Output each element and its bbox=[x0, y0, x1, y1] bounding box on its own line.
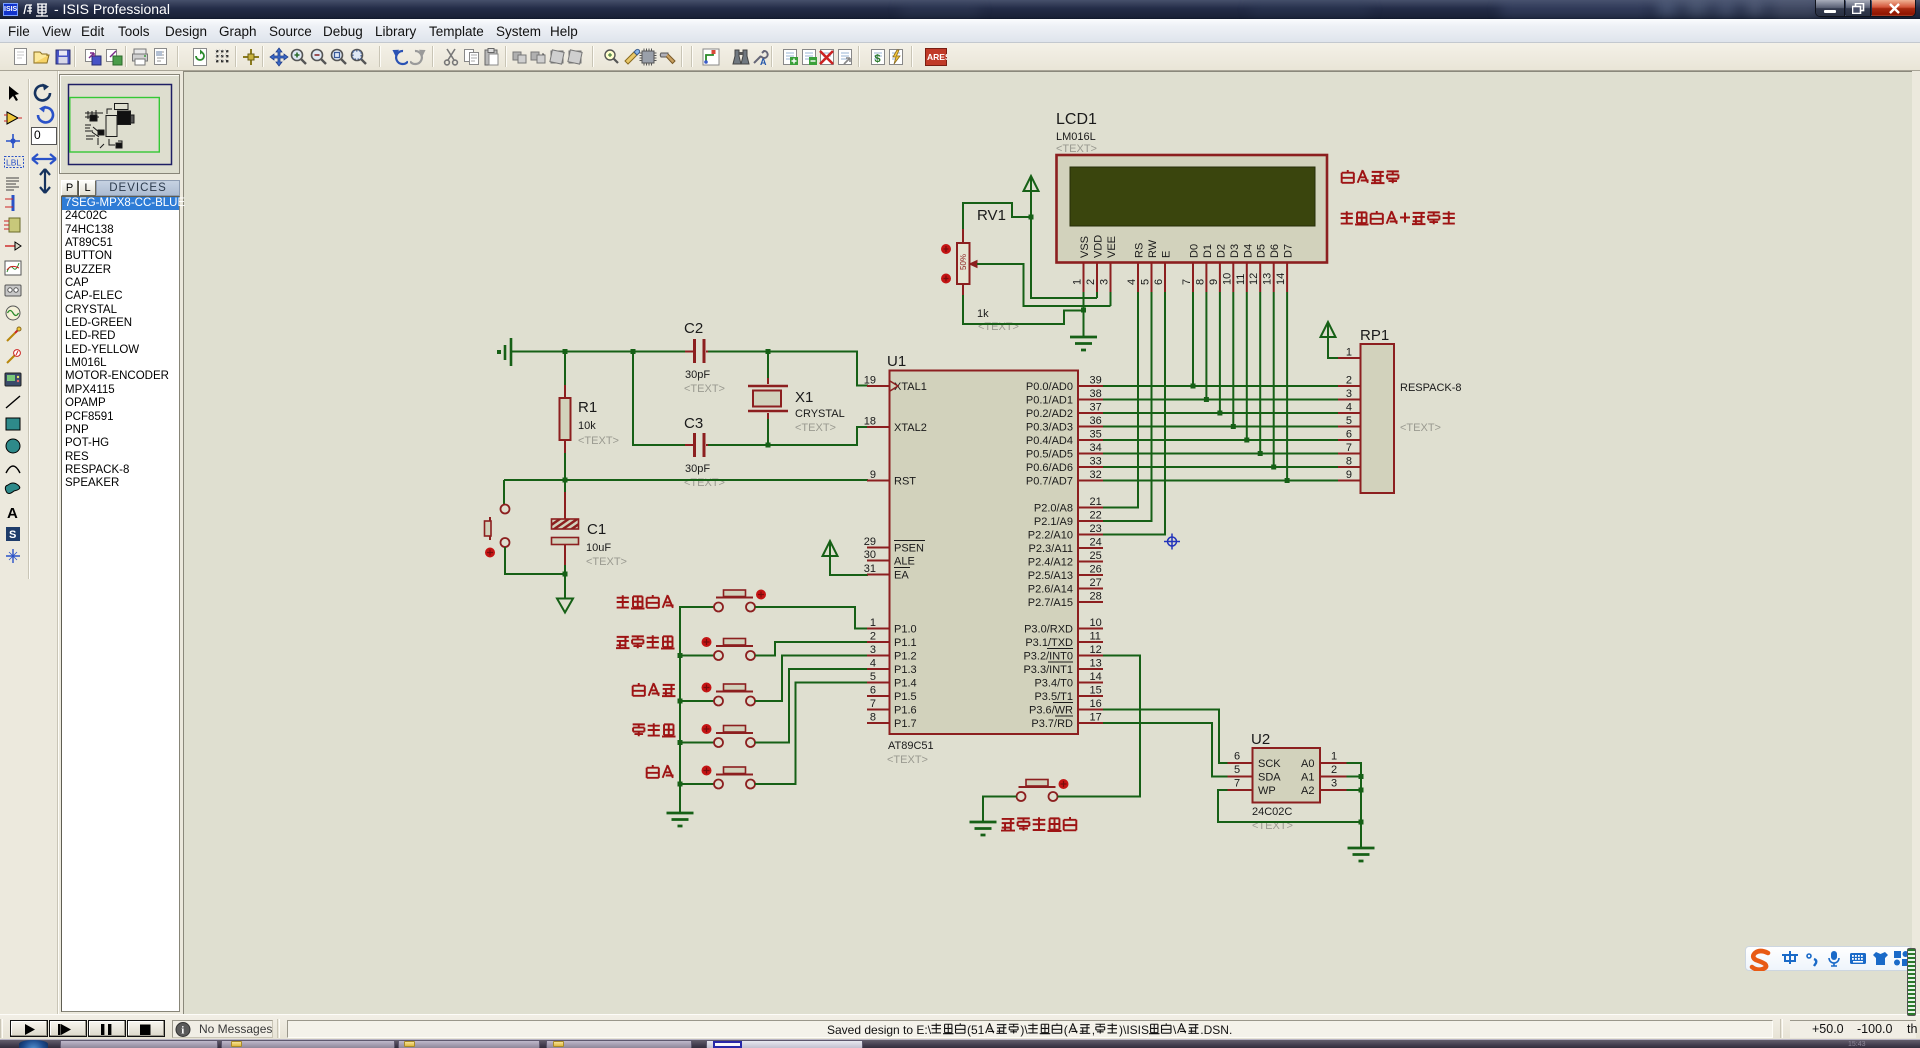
wire LCD RW to P2.1 bbox=[1103, 292, 1152, 521]
wire C3 to XTAL2 bbox=[708, 427, 868, 445]
text placeholder U2 bbox=[1252, 820, 1293, 832]
text placeholder U1 bbox=[887, 754, 928, 766]
ground (button trunk) bbox=[667, 813, 694, 826]
capacitor C1 (electrolytic) bbox=[552, 480, 579, 565]
svg-text:21: 21 bbox=[1090, 496, 1102, 508]
U2 pin names bbox=[1258, 758, 1315, 797]
svg-text:P1.4: P1.4 bbox=[894, 678, 917, 690]
svg-text:SCK: SCK bbox=[1258, 758, 1281, 770]
svg-text:3: 3 bbox=[1346, 388, 1352, 400]
capacitor C3 bbox=[685, 433, 714, 457]
svg-text:10uF: 10uF bbox=[586, 542, 611, 554]
wire LCD D6 vertical bbox=[1273, 292, 1275, 467]
wire P0.5 to RP1 pin7 bbox=[1103, 453, 1338, 455]
svg-text:8: 8 bbox=[1194, 279, 1206, 285]
U1 XTAL1 clock marker bbox=[890, 381, 898, 391]
svg-text:P0.7/AD7: P0.7/AD7 bbox=[1026, 476, 1073, 488]
svg-text:LCD1: LCD1 bbox=[1056, 111, 1097, 128]
svg-text:3: 3 bbox=[1331, 778, 1337, 790]
wire LCD D2 vertical bbox=[1219, 292, 1221, 413]
wire P0.6 to RP1 pin8 bbox=[1103, 466, 1338, 468]
svg-text:P2.2/A10: P2.2/A10 bbox=[1028, 530, 1073, 542]
svg-text:9: 9 bbox=[1346, 469, 1352, 481]
wire XTAL1 top net bbox=[510, 351, 692, 353]
node C3 branch junction bbox=[631, 349, 636, 354]
svg-text:\: \ bbox=[1173, 1023, 1177, 1037]
svg-text:RW: RW bbox=[1147, 239, 1159, 258]
svg-text:,: , bbox=[1092, 1023, 1095, 1037]
svg-text:30: 30 bbox=[864, 549, 876, 561]
value LM016L bbox=[1056, 131, 1096, 143]
svg-text:2: 2 bbox=[1331, 764, 1337, 776]
wire button row 4 to trunk bbox=[680, 742, 714, 744]
label LCD1 bbox=[1056, 111, 1097, 128]
svg-text:D3: D3 bbox=[1229, 244, 1241, 258]
node trunk junction 3 bbox=[678, 699, 683, 704]
svg-text:RS: RS bbox=[1134, 243, 1146, 258]
svg-text:RESPACK-8: RESPACK-8 bbox=[1400, 382, 1462, 394]
wire LCD D1 vertical bbox=[1205, 292, 1207, 400]
node A2 junction bbox=[1359, 788, 1364, 793]
svg-text:VSS: VSS bbox=[1079, 236, 1091, 258]
wire RV1 bottom to VSS net bbox=[963, 295, 1084, 324]
wire C1 to ground terminal bbox=[564, 574, 566, 598]
wire P0.3 to RP1 pin5 bbox=[1103, 426, 1338, 428]
node WP net junction bbox=[1359, 820, 1364, 825]
svg-text:1k: 1k bbox=[977, 308, 989, 320]
svg-text:7: 7 bbox=[1234, 778, 1240, 790]
text placeholder C2 bbox=[684, 383, 725, 395]
svg-text:10: 10 bbox=[1221, 273, 1233, 285]
node D1 junction bbox=[1204, 397, 1209, 402]
U1 right pin stubs and pin numbers bbox=[1078, 375, 1103, 724]
svg-text:14: 14 bbox=[1275, 273, 1287, 285]
svg-text:R1: R1 bbox=[578, 399, 597, 416]
svg-text:10: 10 bbox=[1090, 617, 1102, 629]
svg-text:9: 9 bbox=[870, 469, 876, 481]
U1 PSEN/EA overlines bbox=[894, 541, 925, 568]
wire reset button to C1 bottom bbox=[505, 547, 565, 574]
svg-text:<TEXT>: <TEXT> bbox=[978, 321, 1019, 333]
wire P0.1 to RP1 pin3 bbox=[1103, 399, 1338, 401]
svg-text:P2.7/A15: P2.7/A15 bbox=[1028, 597, 1073, 609]
wire P3.7 to U2 SDA bbox=[1103, 723, 1228, 777]
svg-text:D1: D1 bbox=[1202, 244, 1214, 258]
svg-text:15: 15 bbox=[1090, 685, 1102, 697]
svg-text:)\: )\ bbox=[1020, 1023, 1028, 1037]
svg-text:EA: EA bbox=[894, 570, 909, 582]
svg-text:5: 5 bbox=[870, 671, 876, 683]
value CRYSTAL bbox=[795, 408, 845, 420]
node VSS junction bbox=[1081, 308, 1086, 313]
svg-text:1: 1 bbox=[1346, 347, 1352, 359]
text placeholder LCD1 bbox=[1056, 143, 1097, 155]
svg-text:8: 8 bbox=[1346, 456, 1352, 468]
svg-text:2: 2 bbox=[1346, 375, 1352, 387]
svg-text:P2.4/A12: P2.4/A12 bbox=[1028, 557, 1073, 569]
LCD1 pin names bbox=[1079, 235, 1295, 258]
wire button common ground trunk bbox=[680, 607, 714, 813]
wire SW3 to P1.2 bbox=[755, 656, 867, 702]
wire LCD D0 vertical bbox=[1192, 292, 1194, 386]
potentiometer RV1 bbox=[941, 229, 977, 295]
svg-text:35: 35 bbox=[1090, 429, 1102, 441]
wire button row 5 to trunk bbox=[680, 783, 714, 785]
svg-text:37: 37 bbox=[1090, 402, 1102, 414]
svg-text:E: E bbox=[1161, 251, 1173, 258]
svg-text:P2.0/A8: P2.0/A8 bbox=[1034, 503, 1073, 515]
svg-text:11: 11 bbox=[1090, 631, 1101, 643]
node trunk junction 4 bbox=[678, 740, 683, 745]
value 30pF (C2) bbox=[685, 369, 710, 381]
node X1 top junction bbox=[766, 349, 771, 378]
node R1 top junction bbox=[563, 349, 568, 385]
text placeholder X1 bbox=[795, 422, 836, 434]
svg-text:<TEXT>: <TEXT> bbox=[586, 556, 627, 568]
svg-text:32: 32 bbox=[1090, 469, 1102, 481]
label RP1 bbox=[1360, 327, 1389, 344]
svg-text:P0.4/AD4: P0.4/AD4 bbox=[1026, 435, 1073, 447]
label C3 bbox=[684, 415, 703, 432]
value 10k bbox=[578, 420, 596, 432]
svg-text:XTAL1: XTAL1 bbox=[894, 381, 927, 393]
svg-text:P1.1: P1.1 bbox=[894, 637, 917, 649]
svg-text:RST: RST bbox=[894, 476, 916, 488]
origin marker bbox=[1164, 534, 1180, 550]
svg-text:P0.2/AD2: P0.2/AD2 bbox=[1026, 408, 1073, 420]
svg-text:D2: D2 bbox=[1215, 244, 1227, 258]
svg-text:P0.5/AD5: P0.5/AD5 bbox=[1026, 449, 1073, 461]
svg-text:i: i bbox=[181, 1025, 184, 1037]
ground (U2) bbox=[1348, 848, 1375, 861]
red label 存储清零 (store clear) bbox=[617, 595, 674, 609]
wire SW4 to P1.3 bbox=[755, 669, 867, 743]
svg-text:51: 51 bbox=[971, 1023, 985, 1037]
svg-text:$: $ bbox=[875, 53, 881, 65]
svg-text:16: 16 bbox=[1090, 698, 1102, 710]
svg-text:<TEXT>: <TEXT> bbox=[795, 422, 836, 434]
push button SW5 (store) bbox=[702, 766, 756, 789]
node D7 junction bbox=[1285, 478, 1290, 483]
svg-text:WP: WP bbox=[1258, 785, 1276, 797]
svg-text:D4: D4 bbox=[1242, 244, 1254, 258]
U1 left pin stubs and pin numbers bbox=[864, 375, 890, 724]
wire VCC to RP1 pin1 bbox=[1328, 341, 1338, 358]
red label 存储序号+存储值 (stored index + stored value) bbox=[1341, 211, 1455, 225]
svg-text:24: 24 bbox=[1090, 537, 1102, 549]
svg-text:CRYSTAL: CRYSTAL bbox=[795, 408, 845, 420]
svg-text:<TEXT>: <TEXT> bbox=[684, 383, 725, 395]
svg-text:22: 22 bbox=[1090, 510, 1102, 522]
node D5 junction bbox=[1258, 451, 1263, 456]
LCD display LCD1 LM016L body bbox=[1057, 155, 1328, 263]
svg-text:D6: D6 bbox=[1269, 244, 1281, 258]
node VCC/RV1 junction bbox=[1029, 215, 1034, 220]
wire U2 WP to ground net bbox=[1218, 790, 1361, 822]
svg-text:11: 11 bbox=[1235, 274, 1247, 285]
svg-text:SDA: SDA bbox=[1258, 772, 1281, 784]
wire SW5 to P1.4 bbox=[755, 683, 867, 785]
power VCC (RP1 pin1) bbox=[1321, 322, 1336, 341]
svg-text:7: 7 bbox=[1346, 442, 1352, 454]
push button SW2 (step clear) bbox=[702, 637, 756, 660]
ground terminal (arrow) bbox=[557, 599, 573, 613]
ground (vibration sensor) bbox=[970, 822, 997, 835]
U1 left pin names bbox=[894, 381, 927, 730]
svg-text:P3.3/INT1: P3.3/INT1 bbox=[1023, 664, 1073, 676]
svg-text:<TEXT>: <TEXT> bbox=[684, 477, 725, 489]
svg-text:P2.5/A13: P2.5/A13 bbox=[1028, 570, 1073, 582]
power VCC (LCD VDD net) bbox=[1024, 176, 1039, 195]
svg-text:RP1: RP1 bbox=[1360, 327, 1389, 344]
svg-text:C3: C3 bbox=[684, 415, 703, 432]
op: microcontroller U1 AT89C51 body bbox=[890, 371, 1079, 735]
node D3 junction bbox=[1231, 424, 1236, 429]
svg-text:P2.1/A9: P2.1/A9 bbox=[1034, 516, 1073, 528]
svg-text:P0.1/AD1: P0.1/AD1 bbox=[1026, 395, 1073, 407]
svg-text:3: 3 bbox=[870, 644, 876, 656]
svg-text:6: 6 bbox=[870, 685, 876, 697]
svg-text:A: A bbox=[7, 505, 18, 522]
wire RV1 top to VCC net bbox=[963, 203, 1031, 229]
svg-text:P3.0/RXD: P3.0/RXD bbox=[1024, 624, 1073, 636]
text placeholder C3 bbox=[684, 477, 725, 489]
svg-text:LBL: LBL bbox=[6, 158, 21, 168]
ground (LCD VSS) bbox=[1070, 337, 1097, 350]
svg-text:C1: C1 bbox=[587, 521, 606, 538]
svg-text:U1: U1 bbox=[887, 353, 906, 370]
wire SW1 to P1.0 bbox=[755, 607, 867, 629]
svg-text:50%: 50% bbox=[959, 254, 968, 270]
svg-text:)\ISIS: )\ISIS bbox=[1119, 1023, 1149, 1037]
svg-text:5: 5 bbox=[1346, 415, 1352, 427]
svg-text:VDD: VDD bbox=[1093, 235, 1105, 258]
label U2 bbox=[1251, 731, 1270, 748]
RP1 pin stubs and numbers bbox=[1338, 347, 1361, 482]
svg-text:26: 26 bbox=[1090, 564, 1102, 576]
label X1 bbox=[795, 389, 813, 406]
svg-text:- ISIS Professional: - ISIS Professional bbox=[54, 2, 170, 17]
svg-text:D0: D0 bbox=[1189, 244, 1201, 258]
U1 INT0/INT1/WR/RD overlines bbox=[1047, 649, 1073, 717]
svg-text:13: 13 bbox=[1090, 658, 1102, 670]
U2 pin stubs and numbers bbox=[1228, 751, 1347, 791]
svg-text:27: 27 bbox=[1090, 577, 1102, 589]
svg-text:<TEXT>: <TEXT> bbox=[578, 435, 619, 447]
wire P0.7 to RP1 pin9 bbox=[1103, 480, 1338, 482]
label U1 bbox=[887, 353, 906, 370]
push button SW4 (next) bbox=[702, 724, 756, 747]
wire RV1 wiper to VEE bbox=[977, 264, 1111, 306]
wire SW2 to P1.1 bbox=[755, 642, 867, 656]
node R1 bottom / RST junction bbox=[563, 478, 568, 483]
crystal X1 bbox=[748, 378, 788, 419]
resistor pack RP1 RESPACK-8 body bbox=[1361, 344, 1395, 493]
svg-text:36: 36 bbox=[1090, 415, 1102, 427]
LCD1 pin stubs bbox=[1084, 263, 1288, 293]
svg-text:(: ( bbox=[1064, 1023, 1068, 1037]
label R1 bbox=[578, 399, 597, 416]
svg-text:RV1: RV1 bbox=[977, 207, 1006, 224]
node A1 junction bbox=[1359, 774, 1364, 779]
svg-text:1: 1 bbox=[1072, 279, 1084, 285]
node D0 junction bbox=[1191, 384, 1196, 389]
red label 步数清零 (step clear) bbox=[616, 635, 675, 648]
wire button row 3 to trunk bbox=[680, 700, 714, 702]
svg-text:13: 13 bbox=[1262, 273, 1274, 285]
svg-text:ALE: ALE bbox=[894, 556, 915, 568]
svg-text:6: 6 bbox=[1346, 429, 1352, 441]
svg-text:P3.7/RD: P3.7/RD bbox=[1031, 718, 1073, 730]
svg-text:24C02C: 24C02C bbox=[1252, 806, 1292, 818]
svg-text:29: 29 bbox=[864, 536, 876, 548]
svg-text:Saved design to E:\: Saved design to E:\ bbox=[827, 1023, 932, 1037]
label C1 bbox=[587, 521, 606, 538]
value RESPACK-8 bbox=[1400, 382, 1462, 394]
text placeholder RP1 bbox=[1400, 422, 1441, 434]
resistor R1 bbox=[560, 385, 571, 453]
svg-text:2: 2 bbox=[1085, 279, 1097, 285]
svg-text:38: 38 bbox=[1090, 388, 1102, 400]
node D4 junction bbox=[1244, 438, 1249, 443]
wire C3 branch vertical bbox=[633, 352, 692, 446]
svg-text:VEE: VEE bbox=[1106, 236, 1118, 258]
svg-text:12: 12 bbox=[1248, 273, 1260, 285]
svg-text:31: 31 bbox=[864, 563, 876, 575]
LCD1 pin numbers bbox=[1072, 273, 1288, 285]
wire SW6 to P3.2 bbox=[1058, 656, 1141, 797]
svg-text:P2.3/A11: P2.3/A11 bbox=[1029, 543, 1073, 555]
svg-text:P3.2/INT0: P3.2/INT0 bbox=[1023, 651, 1073, 663]
wire RST to reset button bbox=[503, 480, 505, 504]
svg-text:4: 4 bbox=[1346, 402, 1352, 414]
svg-text:14: 14 bbox=[1090, 671, 1102, 683]
U1 right pin names bbox=[1023, 381, 1073, 730]
svg-text:P1.2: P1.2 bbox=[894, 651, 917, 663]
svg-text:9: 9 bbox=[1208, 279, 1220, 285]
value 10uF bbox=[586, 542, 611, 554]
svg-text:A0: A0 bbox=[1301, 758, 1314, 770]
red label 上一个 (previous) bbox=[633, 683, 676, 696]
svg-text:19: 19 bbox=[864, 375, 876, 387]
svg-text:17: 17 bbox=[1090, 712, 1102, 724]
wire button row 2 to trunk bbox=[680, 655, 714, 657]
svg-text:<TEXT>: <TEXT> bbox=[1056, 143, 1097, 155]
svg-text:23: 23 bbox=[1090, 523, 1102, 535]
wire VCC to EA bbox=[830, 560, 868, 575]
wire P0.0 to RP1 pin2 bbox=[1103, 385, 1338, 387]
red label 下一个 (next) bbox=[633, 723, 676, 736]
value AT89C51 bbox=[888, 740, 934, 752]
svg-text:P3.4/T0: P3.4/T0 bbox=[1034, 678, 1073, 690]
svg-text:P3.6/WR: P3.6/WR bbox=[1029, 705, 1073, 717]
svg-text:18: 18 bbox=[864, 416, 876, 428]
svg-text:P0.6/AD6: P0.6/AD6 bbox=[1026, 462, 1073, 474]
power VCC (EA pin) bbox=[823, 541, 838, 560]
svg-text:39: 39 bbox=[1090, 375, 1102, 387]
wire P0.2 to RP1 pin4 bbox=[1103, 412, 1338, 414]
svg-text:8: 8 bbox=[870, 712, 876, 724]
push button SW3 (previous) bbox=[702, 683, 756, 706]
svg-text:4: 4 bbox=[870, 658, 876, 670]
svg-text:7: 7 bbox=[870, 698, 876, 710]
wire RST net bbox=[504, 453, 868, 480]
svg-text:S: S bbox=[9, 529, 16, 541]
text placeholder R1 bbox=[578, 435, 619, 447]
svg-text:A1: A1 bbox=[1301, 772, 1314, 784]
wire C2 to XTAL1 bbox=[708, 352, 868, 386]
svg-text:2: 2 bbox=[870, 631, 876, 643]
svg-text:7: 7 bbox=[1181, 279, 1193, 285]
svg-text:P1.7: P1.7 bbox=[894, 718, 917, 730]
label RV1 bbox=[977, 207, 1006, 224]
wire VCC down to VDD bbox=[1031, 195, 1097, 298]
wire VSS to ground bbox=[1083, 292, 1085, 337]
push button SW1 (store clear) bbox=[714, 590, 766, 612]
svg-text:<TEXT>: <TEXT> bbox=[1400, 422, 1441, 434]
svg-text:P1.0: P1.0 bbox=[894, 624, 917, 636]
label C2 bbox=[684, 320, 703, 337]
node trunk junction 2 bbox=[678, 653, 683, 658]
node trunk junction 5 bbox=[678, 782, 683, 787]
svg-text:4: 4 bbox=[1126, 279, 1138, 285]
svg-text:P1.6: P1.6 bbox=[894, 705, 917, 717]
svg-text:30pF: 30pF bbox=[685, 369, 710, 381]
wire LCD RS to P2.0 bbox=[1103, 292, 1138, 508]
wire LCD D4 vertical bbox=[1246, 292, 1248, 440]
red label 存储 (store) bbox=[647, 765, 674, 778]
svg-text:1: 1 bbox=[870, 617, 876, 629]
node C1 bottom junction bbox=[563, 572, 568, 577]
svg-text:5: 5 bbox=[1234, 764, 1240, 776]
svg-text:10k: 10k bbox=[578, 420, 596, 432]
svg-text:.DSN.: .DSN. bbox=[1200, 1023, 1232, 1037]
push button SW6 (vibration sensor) bbox=[1017, 779, 1069, 801]
value 30pF (C3) bbox=[685, 463, 710, 475]
svg-text:28: 28 bbox=[1090, 591, 1102, 603]
svg-text:5: 5 bbox=[1140, 279, 1152, 285]
text placeholder C1 bbox=[586, 556, 627, 568]
svg-text:P0.3/AD3: P0.3/AD3 bbox=[1026, 422, 1073, 434]
wire LCD D5 vertical bbox=[1259, 292, 1261, 454]
svg-text:D5: D5 bbox=[1256, 244, 1268, 258]
svg-text:6: 6 bbox=[1153, 279, 1165, 285]
wire SW6 to ground bbox=[983, 797, 1017, 823]
svg-text:PSEN: PSEN bbox=[894, 543, 924, 555]
wire P0.4 to RP1 pin6 bbox=[1103, 439, 1338, 441]
text placeholder RV1 bbox=[978, 321, 1019, 333]
svg-text:12: 12 bbox=[1090, 644, 1102, 656]
svg-text:3: 3 bbox=[1099, 279, 1111, 285]
svg-text:AT89C51: AT89C51 bbox=[888, 740, 934, 752]
svg-text:P1.3: P1.3 bbox=[894, 664, 917, 676]
power terminal (XTAL net) bbox=[497, 338, 511, 366]
svg-text:6: 6 bbox=[1234, 751, 1240, 763]
svg-text:D7: D7 bbox=[1283, 244, 1295, 258]
value 24C02C bbox=[1252, 806, 1292, 818]
red label 当前步数 (current step count) bbox=[1342, 170, 1399, 183]
svg-text:P3.5/T1: P3.5/T1 bbox=[1034, 691, 1073, 703]
memory U2 24C02C body bbox=[1253, 748, 1321, 803]
svg-text:<TEXT>: <TEXT> bbox=[887, 754, 928, 766]
svg-text:C2: C2 bbox=[684, 320, 703, 337]
svg-text:U2: U2 bbox=[1251, 731, 1270, 748]
svg-text:A2: A2 bbox=[1301, 785, 1314, 797]
node D2 junction bbox=[1217, 411, 1222, 416]
svg-text:ARES: ARES bbox=[927, 52, 947, 62]
svg-text:1: 1 bbox=[1331, 751, 1337, 763]
wire LCD E to P2.2 bbox=[1103, 292, 1165, 535]
